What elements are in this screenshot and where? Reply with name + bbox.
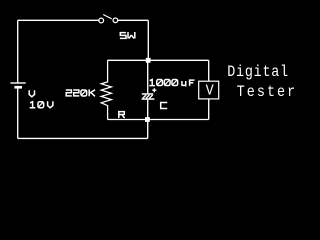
- wire top rail from battery to switch: [18, 19, 99, 21]
- wire bottom bus from resistor to tester: [108, 119, 209, 121]
- capacitor C plus sign: [152, 88, 156, 92]
- label V (battery): [29, 90, 34, 97]
- resistor R zigzag: [101, 60, 111, 119]
- switch SW contact circle left: [99, 18, 104, 23]
- label 10V: [30, 101, 53, 108]
- label 220K: [66, 89, 95, 96]
- wire capacitor branch lower: [147, 100, 149, 120]
- wire capacitor branch upper: [147, 60, 149, 93]
- wire from switch to top-right corner: [118, 19, 148, 21]
- battery V negative plate: [14, 86, 22, 89]
- label Digital: [227, 64, 289, 82]
- switch SW lever arm: [103, 15, 112, 19]
- voltmeter U1 box: [199, 81, 219, 99]
- label SW: [120, 32, 135, 39]
- node B junction square: [145, 117, 150, 122]
- label R: [119, 112, 125, 118]
- switch SW contact circle right: [113, 18, 118, 23]
- battery V positive plate: [10, 82, 25, 84]
- capacitor C top plate: [142, 93, 153, 95]
- wire drop from switch corner to node A: [147, 20, 149, 60]
- capacitor C bottom plate: [142, 98, 155, 100]
- wire left rail upper (battery positive to top rail): [17, 20, 19, 82]
- capacitor C hatched plate: [143, 95, 153, 99]
- wire riser from bottom rail to node B: [147, 120, 149, 139]
- node A junction square: [146, 58, 151, 63]
- voltmeter U1 V symbol: [206, 83, 214, 100]
- wire left rail lower (battery negative down): [17, 89, 19, 139]
- label Tester: [237, 84, 298, 102]
- label 1000uF: [149, 80, 194, 87]
- wire bottom return rail: [18, 137, 148, 139]
- wire tester drop upper: [208, 60, 210, 81]
- wire tester drop lower: [208, 99, 210, 120]
- label C: [161, 103, 167, 109]
- wire top bus from resistor to tester: [108, 59, 209, 61]
